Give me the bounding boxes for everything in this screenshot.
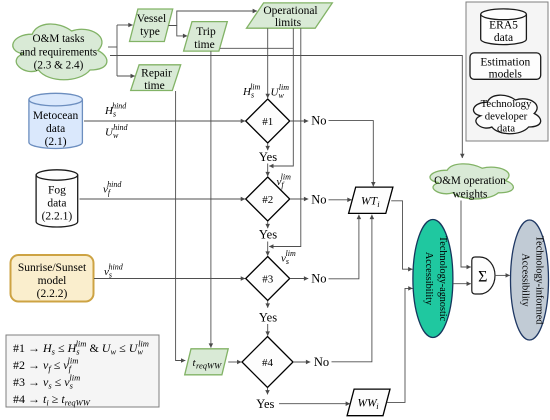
svg-text:No: No [314,355,329,369]
wire Fog to diamond 2 [80,198,246,200]
svg-text:time: time [144,80,164,92]
svg-text:Technology-informed: Technology-informed [534,236,545,325]
wire Operational limits to diamond 1 [267,28,269,98]
svg-text:vslim: vslim [281,249,296,266]
wire Yes3 to diamond 4 [267,324,269,336]
wire diamond 2 No arrow [290,198,308,200]
svg-text:Hshind: Hshind [104,102,127,119]
parallelogram Repair time [131,65,181,92]
ellipse Technology-informed Accessibility [511,220,549,340]
cylinder Fog data (2.2.1) [36,170,78,227]
svg-text:Technology-agnostic: Technology-agnostic [437,236,448,322]
rounded rect Sunrise/Sunset model (2.2.2) [11,255,94,302]
parallelogram Vessel type [130,9,173,42]
svg-text:Trip: Trip [196,26,216,38]
svg-text:developer: developer [485,111,528,123]
svg-text:Yes: Yes [259,311,277,325]
parallelogram Trip time [184,22,228,51]
svg-text:limits: limits [275,17,302,29]
cloud O&M operation weights [430,164,513,201]
svg-text:WT: WT [361,196,379,208]
wire Operational limits to diamond 2 feed [269,28,293,166]
wire diamond 4 No arrow [293,361,310,363]
wire WW_i to agnostic ellipse [387,288,413,402]
parallelogram t_reqWW [185,349,229,375]
wire No3 to WT_i bottom [329,215,359,279]
svg-text:Σ: Σ [478,269,487,286]
svg-text:Repair: Repair [141,67,172,79]
wire Yes1 to diamond 2 [267,164,269,177]
svg-text:#1: #1 [262,116,273,128]
svg-text:reqWW: reqWW [196,361,222,371]
svg-text:data: data [47,198,66,210]
wire WT_i to agnostic ellipse [391,201,412,269]
svg-text:Uwlim: Uwlim [271,83,290,100]
ellipse Technology-agnostic Accessibility [413,220,453,338]
svg-text:Uwhind: Uwhind [105,123,129,140]
svg-text:(2.1): (2.1) [45,136,67,148]
svg-text:Accessibility: Accessibility [423,252,434,306]
svg-text:type: type [140,26,160,38]
svg-text:No: No [311,272,326,286]
diamond #2 [246,177,290,221]
wire sigma to informed ellipse [495,274,510,276]
parallelogram WW_i [347,389,390,416]
wire branch vertical [116,25,118,76]
svg-text:(2.2.2): (2.2.2) [37,288,68,300]
svg-text:Hslim: Hslim [242,83,261,100]
svg-text:Yes: Yes [259,228,277,242]
svg-text:Yes: Yes [256,397,274,411]
wire diamond 1 Yes arrow [267,143,269,150]
svg-text:Fog: Fog [48,185,66,197]
cloud Technology developer data [473,95,540,134]
wire t_reqWW to diamond 4 [228,361,241,363]
svg-text:No: No [311,114,326,128]
svg-text:data: data [497,123,515,135]
wire Trip time stub to limit line [220,47,293,49]
svg-text:models: models [489,69,523,81]
wire No1 to WT_i top [329,121,374,187]
wire No4 to WT_i bottom [332,215,372,362]
svg-text:(2.3 & 2.4): (2.3 & 2.4) [34,60,84,72]
svg-text:Operational: Operational [263,5,317,17]
svg-text:ERA5: ERA5 [489,20,518,32]
svg-text:vshind: vshind [104,263,124,280]
legend box [6,335,159,408]
svg-text:#4: #4 [262,357,274,369]
svg-text:vfhind: vfhind [103,180,122,197]
parallelogram WT_i [349,187,393,213]
diamond #3 [246,257,290,301]
svg-text:Accessibility: Accessibility [520,253,531,307]
svg-text:Estimation: Estimation [480,57,530,69]
wire Yes2 to diamond 3 [267,242,269,256]
wire diamond 3 Yes arrow [267,301,269,308]
diamond #1 [246,99,290,143]
wire Sunrise to diamond 3 [94,278,245,280]
svg-text:O&M tasks: O&M tasks [33,33,85,45]
svg-text:O&M operation: O&M operation [434,175,506,187]
svg-text:Yes: Yes [259,150,277,164]
svg-text:data: data [46,123,65,135]
wire cloud to branch [108,46,117,48]
svg-text:Metocean: Metocean [33,110,79,122]
wire diamond 3 No arrow [290,278,308,280]
diamond #4 [242,337,293,388]
svg-text:model: model [38,275,67,287]
wire Yes4 to WW_i [279,403,350,405]
wire Vessel type to Trip time [177,26,187,36]
container box (ERA5 group) [466,2,548,141]
wire Vessel type to Operational limits [169,11,257,26]
svg-text:time: time [194,39,214,51]
svg-text:#2: #2 [262,194,273,206]
svg-text:#3: #3 [262,274,274,286]
svg-text:and requirements: and requirements [20,46,97,58]
wire agnostic ellipse to sigma [453,283,471,285]
wire branch to Vessel type [117,24,133,26]
svg-text:No: No [311,193,326,207]
wire Trip time down to t_reqWW [210,51,212,347]
wire Metocean to diamond 1 [84,120,245,122]
svg-text:vflim: vflim [277,173,292,190]
wire No2 to WT_i left [329,199,352,201]
wire diamond 2 Yes arrow [267,221,269,228]
cylinder Metocean data (2.1) [29,93,83,148]
rounded rect Estimation models [470,53,541,81]
svg-text:#2 → vf ≤ vflim: #2 → vf ≤ vflim [13,356,78,374]
wire long horizontal to O&M weights cloud [110,56,462,159]
svg-text:WW: WW [358,398,379,410]
wire diamond 1 No arrow [290,120,308,122]
cylinder ERA5 data [481,9,527,45]
svg-text:#3 → vs ≤ vslim: #3 → vs ≤ vslim [13,373,80,391]
parallelogram Operational limits [247,3,333,29]
wire diamond 4 Yes arrow [267,388,269,395]
sigma summation node [472,257,495,294]
svg-text:(2.2.1): (2.2.1) [42,211,73,223]
wire Operational limits to diamond 3 feed [269,28,301,246]
svg-text:data: data [494,32,513,44]
svg-text:Vessel: Vessel [137,13,166,25]
cloud O&M tasks and requirements (2.3 & 2.4) [13,24,107,80]
wire Repair time down to t_reqWW [176,91,186,361]
svg-text:Technology: Technology [481,98,532,110]
wire weights cloud to sigma [461,201,471,268]
wire branch to Repair time [117,75,135,77]
svg-text:weights: weights [453,189,488,201]
svg-text:Sunrise/Sunset: Sunrise/Sunset [18,262,87,274]
